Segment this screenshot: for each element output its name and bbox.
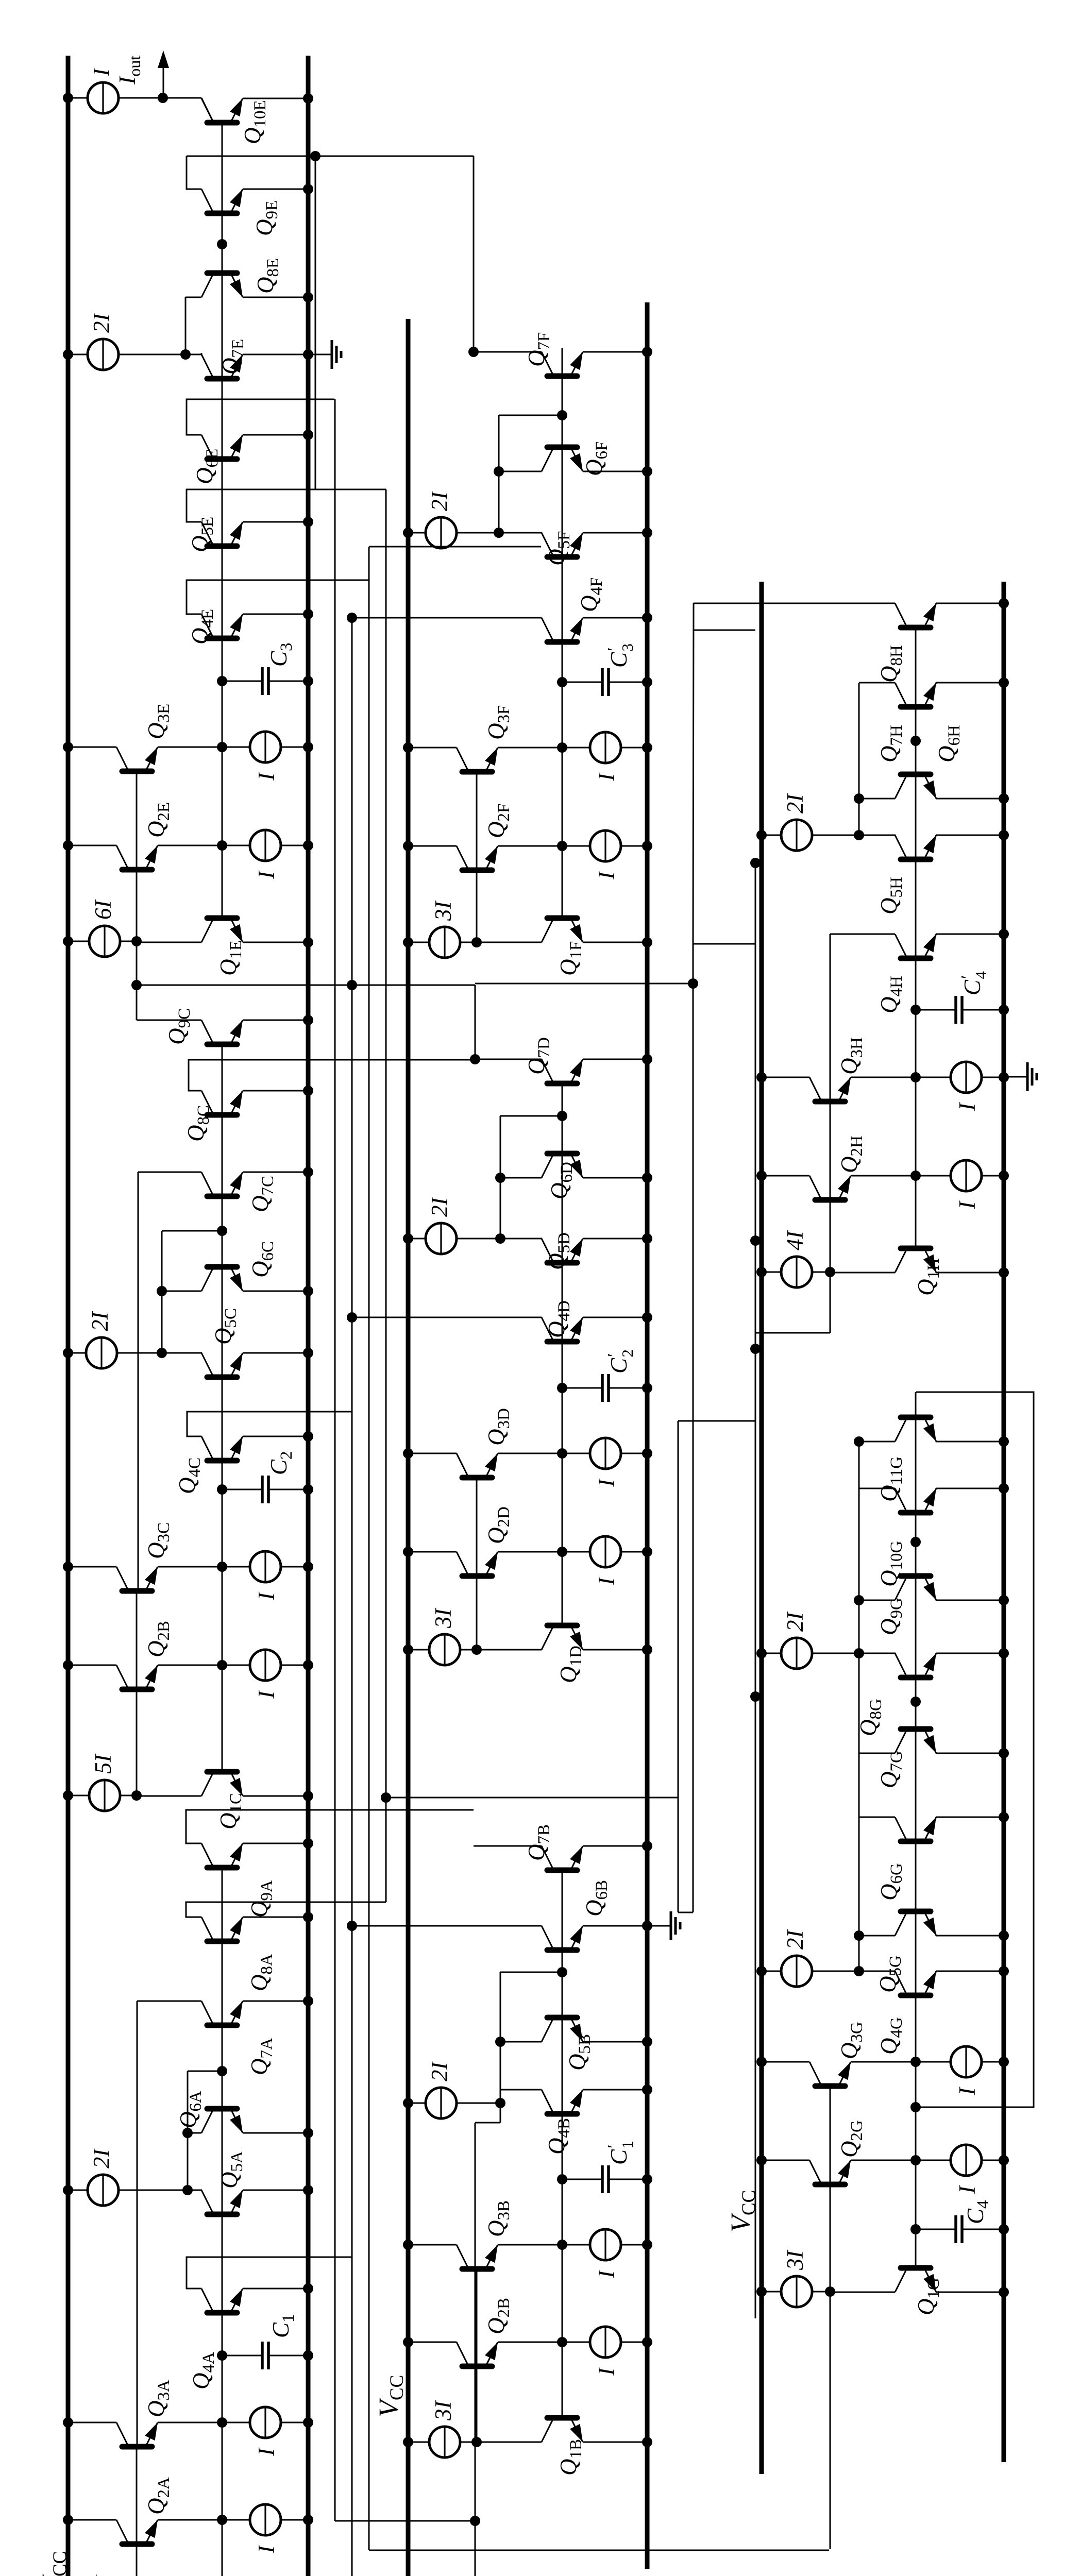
wire E bias node left [131, 941, 142, 1020]
current source I (Q3D emitter) [594, 1478, 619, 1487]
wire Q5H collector [859, 835, 896, 836]
wire Q4C collector hook [187, 1412, 352, 1436]
wire base row B [562, 1868, 563, 2342]
label Q2E [143, 802, 173, 838]
svg-text:5I: 5I [90, 1754, 116, 1774]
wire Q9C emitter [243, 1015, 313, 1025]
label Q3F [483, 705, 513, 740]
wire Q5B collector [495, 2037, 542, 2047]
label Q4E [187, 609, 217, 645]
transistor Q7D [542, 1059, 583, 1083]
svg-text:3I: 3I [782, 2250, 808, 2271]
svg-text:I: I [594, 2367, 619, 2376]
wire Q4F emitter [583, 613, 652, 623]
current source 2I (G2) [756, 1956, 864, 1987]
wire Q6G collector [859, 1817, 895, 1818]
capacitor C1 [217, 2342, 313, 2369]
label 2I (G2) [782, 1929, 808, 1950]
wire Q6H collector [854, 793, 895, 804]
wire Q5C emitter [243, 1348, 313, 1358]
label 2I (A) [89, 2148, 114, 2169]
transistor Q6E [201, 435, 243, 459]
net E bias drop x3448 [137, 980, 475, 990]
transistor Q9C [201, 1020, 243, 1044]
current source I (Q3E emitter) [254, 772, 279, 781]
label Q2G [836, 2120, 866, 2158]
label Q2H [836, 1136, 866, 1173]
label C4p [958, 971, 990, 995]
current source 3I (D) [403, 1634, 482, 1665]
wire Q11G collector [854, 1436, 895, 1447]
capacitor C3 [217, 667, 313, 695]
current source 2I (E) [63, 339, 191, 370]
transistor Q8C [201, 1091, 243, 1115]
wire Q6D emitter [583, 1173, 652, 1183]
transistor Q6F [542, 447, 583, 471]
transistor Q1E [137, 844, 313, 947]
label 3I (G) [782, 2250, 808, 2271]
wire Q7B emitter [583, 1841, 652, 1851]
transistor Q3C [63, 1551, 313, 1591]
current source I (Q3F emitter) [594, 772, 619, 782]
wire Q6F emitter [583, 466, 652, 477]
transistor Q7H [895, 683, 936, 707]
net y612 (Q9E to F) [310, 151, 320, 489]
wire Q8G emitter [936, 1648, 1009, 1658]
svg-text:I: I [954, 1102, 980, 1111]
label 5I [90, 1754, 116, 1774]
label Q7E [217, 339, 247, 375]
current source 3I (F) [403, 927, 482, 958]
svg-text:2I: 2I [782, 1612, 808, 1632]
svg-text:I: I [254, 870, 279, 879]
net y922 CD link [475, 985, 476, 1059]
transistor Q2B [403, 2327, 652, 2366]
node D core tie [500, 1111, 567, 1239]
current source 4I [756, 1257, 835, 1287]
label Iout [114, 56, 144, 85]
label C1 [268, 2314, 298, 2338]
wire Q4E emitter [243, 609, 313, 619]
label 2I (B) [427, 2061, 452, 2082]
wire Q5E emitter [243, 517, 313, 527]
wire Q5E collector hook [187, 489, 386, 522]
label Q4B [544, 2118, 573, 2155]
net y1316 leg left [678, 1912, 693, 1913]
current source I (Q3A emitter) [254, 2447, 279, 2456]
wire Q10G base dot [910, 1537, 921, 1547]
wire base row H [915, 625, 917, 1175]
transistor Q2A [63, 2504, 313, 2544]
transistor Q3A [63, 2407, 313, 2447]
current source 2I (H) [756, 820, 864, 851]
transistor Q1D [477, 1552, 652, 1655]
label Q6B [581, 1880, 611, 1917]
wire Q4H emitter [936, 929, 1009, 939]
wire Q7A collector [137, 2001, 201, 2002]
transistor Q4B [542, 2090, 583, 2114]
wire Q5A collector [188, 2190, 202, 2191]
wire mirror base line C [137, 1172, 138, 1795]
transistor Q7F [542, 352, 583, 376]
wire mirror base line F [476, 769, 478, 942]
current source 2I (B) [403, 2088, 505, 2119]
label Q6E [192, 449, 222, 484]
wire Q7F emitter [583, 347, 652, 357]
label C1p [604, 2141, 636, 2165]
label VCC band3 [725, 2190, 760, 2232]
wire Q6G emitter [936, 1812, 1009, 1822]
transistor Q4F [542, 618, 583, 642]
capacitor C4p [910, 996, 1009, 1024]
svg-text:3I: 3I [430, 901, 456, 922]
label 2I (D) [427, 1197, 452, 1217]
wire Q4A collector hook [187, 2257, 352, 2289]
transistor Q2F [403, 831, 652, 870]
current source I (Q3H emitter) [954, 1102, 980, 1111]
capacitor C3p [557, 668, 652, 696]
wire base row G [915, 1415, 917, 2160]
net y1345 [693, 944, 694, 1912]
label 6I (E) [90, 900, 116, 920]
transistor Q2B (band1) [63, 1650, 313, 1689]
wire Q7A emitter [243, 1996, 313, 2006]
net y1345 to Q8H [693, 603, 694, 944]
wire Q7D collector [470, 1054, 542, 1064]
wire Q6F collector [494, 466, 542, 477]
transistor Q1G [830, 2160, 1009, 2297]
label Q8C [183, 1105, 213, 1142]
wire Q8E base [217, 239, 227, 270]
wire mirror base line D [476, 1475, 478, 1650]
ground (band1) [308, 340, 341, 369]
wire Q6A collector [182, 2128, 201, 2138]
label Q10E [240, 100, 269, 144]
label 3I (B) [430, 2400, 456, 2421]
label C2 [266, 1451, 296, 1475]
label Q3E [143, 704, 173, 739]
wire Q8H collector [694, 603, 895, 604]
net leg x1871 [386, 1797, 678, 1799]
transistor Q7C [201, 1172, 243, 1196]
wire Q6E collector hook [187, 399, 334, 435]
label Q6G [876, 1863, 906, 1901]
net y919 EF [473, 156, 475, 354]
wire Q5G collector [854, 1930, 895, 1941]
net y649 left leg [335, 2520, 475, 2522]
label Q1E [215, 940, 245, 976]
transistor Q1H [830, 1175, 1009, 1278]
transistor Q6G [895, 1817, 936, 1841]
wire Q6A emitter [243, 2128, 313, 2138]
svg-text:4I: 4I [782, 1230, 808, 1251]
label C4 [963, 2200, 992, 2224]
transistor Q1C [137, 1665, 313, 1801]
VCC rail band1 [66, 56, 71, 2576]
net y1466 [750, 858, 761, 2318]
wire base row A [222, 1870, 223, 2519]
current source I (Q2B emitter) [594, 2367, 619, 2376]
wire Q8G base dot [910, 1697, 921, 1707]
node G collector line [858, 1441, 860, 1971]
current source I (Q3G emitter) [954, 2087, 980, 2096]
wire Q5A emitter [243, 2185, 313, 2195]
wire Q7G collector [859, 1753, 895, 1754]
transistor Q9A [201, 1843, 243, 1868]
label Q5G [875, 1955, 905, 1993]
svg-text:2I: 2I [782, 793, 808, 814]
svg-text:I: I [89, 67, 114, 77]
wire mirror base line A [137, 2001, 137, 2576]
wire Q8H emitter [936, 598, 1009, 608]
wire Q4G collector [859, 1971, 896, 1972]
wire Q6C emitter [243, 1286, 313, 1296]
label Q11G [876, 1456, 906, 1502]
wire Q5H emitter [936, 830, 1009, 840]
wire Q8C emitter [243, 1086, 313, 1096]
label Q4F [576, 578, 606, 612]
label Q1C [215, 1793, 245, 1829]
label Q2F [483, 804, 513, 838]
label Q3H [836, 1037, 866, 1075]
current source 2I (G1) [756, 1638, 864, 1669]
wire base row D [562, 1082, 563, 1552]
label Q7G [876, 1751, 906, 1788]
label 3I (F) [430, 901, 456, 922]
transistor Q6B [542, 1926, 583, 1950]
label Q6A [175, 2091, 205, 2128]
wire Q8C collector hook [189, 1060, 475, 1091]
svg-text:2I: 2I [89, 313, 114, 333]
svg-text:I: I [594, 871, 619, 880]
capacitor C1p [557, 2165, 652, 2193]
transistor Q4A [201, 2289, 243, 2313]
label Q1B [555, 2439, 585, 2476]
svg-text:6I: 6I [90, 900, 116, 920]
wire Q9C collector [137, 1020, 201, 1021]
wire Q7C emitter [243, 1167, 313, 1177]
svg-text:I: I [594, 1478, 619, 1487]
label Q1F [555, 941, 585, 976]
wire mirror base line H [830, 934, 831, 1272]
svg-text:2I: 2I [89, 2148, 114, 2169]
wire Q4D collector [347, 1312, 542, 1323]
transistor Q8A [201, 1917, 243, 1941]
wire Q4B emitter [583, 2084, 652, 2095]
current source 6I (E) [63, 926, 142, 957]
net y715 (Q4E tap) [368, 547, 370, 2550]
ground (band3) [1004, 1062, 1037, 1091]
transistor Q5F [542, 533, 583, 557]
VCC rail band2 [406, 319, 411, 2576]
transistor Q7E [201, 354, 243, 379]
label C3 [266, 642, 296, 667]
label Q9G [876, 1598, 906, 1635]
wire mirror base line B [476, 2266, 478, 2442]
label Q9C [164, 1008, 194, 1045]
label Q2B (band1) [143, 1621, 173, 1657]
label Q6C [247, 1241, 277, 1278]
label Q2D [483, 1506, 513, 1544]
label 2I (F) [427, 491, 452, 512]
current source I (output) [63, 82, 168, 113]
label Q5H [876, 877, 906, 914]
net y749 (Q5E tap) [381, 489, 391, 1902]
transistor Q4H [895, 934, 936, 958]
wire mirror base line E [136, 769, 138, 941]
label Q5F [544, 531, 573, 566]
current source I (Q2B (band1) emitter) [254, 1690, 279, 1699]
svg-text:I: I [254, 772, 279, 781]
label Q6D [546, 1162, 576, 1199]
svg-text:I: I [954, 2087, 980, 2096]
current source 5I [63, 1780, 142, 1811]
label Q2B [483, 2298, 513, 2334]
net y715 leg G [369, 2550, 829, 2551]
wire Q6B collector [347, 1921, 542, 1931]
svg-text:I: I [594, 1577, 619, 1586]
label VCC band1 [36, 2551, 71, 2576]
label Q3C [143, 1522, 173, 1559]
label C3p [604, 643, 636, 668]
net y749 leg Q8A [186, 1902, 386, 1903]
ground rail band1 [306, 56, 311, 2576]
current source I (Q3C emitter) [254, 1591, 279, 1601]
transistor Q3B [403, 2229, 652, 2269]
net y1316 leg right [678, 1420, 755, 1422]
wire mirror base line G [830, 2083, 831, 2549]
current source I (Q2E emitter) [254, 870, 279, 879]
capacitor C4 [910, 2215, 1009, 2243]
label Q5A [216, 2151, 246, 2189]
label 2I (E) [89, 313, 114, 333]
label 2I (C) [87, 1311, 113, 1332]
current source I (Q3B emitter) [594, 2269, 619, 2279]
wire Q7H collector [859, 682, 895, 684]
transistor Q5D [542, 1239, 583, 1263]
svg-text:2I: 2I [427, 1197, 452, 1217]
transistor Q2H [756, 1160, 1009, 1200]
wire Q6C collector [157, 1286, 201, 1296]
label Q7H [876, 725, 906, 762]
transistor Q10G [895, 1488, 936, 1513]
label Q5B [564, 2034, 594, 2071]
wire Q7H base junction [910, 736, 921, 746]
transistor Q1A [137, 2518, 313, 2576]
label Q1G [913, 2278, 943, 2315]
wire Q8G collector [859, 1653, 896, 1654]
wire Q7B collector [474, 1845, 542, 1847]
transistor Q4D [542, 1317, 583, 1342]
svg-text:2I: 2I [87, 1311, 113, 1332]
current source I (Q2H emitter) [954, 1200, 980, 1210]
net y1345 leg [693, 943, 755, 945]
current source I (Q2G emitter) [954, 2185, 980, 2194]
transistor Q5G [895, 1911, 936, 1936]
capacitor C2p [557, 1374, 652, 1402]
wire Q5C collector [162, 1352, 202, 1354]
label Q4D [544, 1300, 573, 1338]
svg-text:I: I [954, 2185, 980, 2194]
wire Q6B emitter [583, 1921, 652, 1931]
net y683 (Iin bias line) [351, 618, 353, 2576]
ground rail band2 [645, 302, 650, 2569]
transistor Q2E [63, 830, 313, 870]
transistor Q3G [756, 2046, 1009, 2086]
transistor Q3D [403, 1438, 652, 1478]
capacitor C2 [217, 1476, 313, 1503]
transistor Q7G [895, 1729, 936, 1753]
wire Q7E collector [185, 353, 201, 354]
current source 3I (G) [756, 2276, 835, 2307]
wire Q10E collector [163, 98, 212, 120]
wire Q9A collector hook [186, 1810, 474, 1843]
net y922 B [470, 2123, 500, 2576]
label Q7C [247, 1176, 277, 1212]
net x4137 leg [694, 630, 755, 631]
label Q4H [876, 976, 906, 1013]
VCC rail band3 [760, 582, 764, 2474]
wire Q6E emitter [243, 430, 313, 440]
label Q8E [252, 258, 282, 294]
wire base row F [562, 348, 563, 845]
transistor Q8G [895, 1653, 936, 1677]
wire Q10G collector [859, 1488, 895, 1489]
svg-text:2I: 2I [427, 491, 452, 512]
current source 2I (F) [403, 517, 504, 548]
wire Q10E emitter [243, 93, 313, 104]
wire Q9G collector [854, 1595, 895, 1605]
wire Q7C collector [138, 1172, 201, 1173]
label C2p [604, 1349, 636, 1374]
svg-text:2I: 2I [782, 1929, 808, 1950]
wire Q6H emitter [936, 793, 1009, 804]
transistor Q7B [542, 1846, 583, 1870]
wire Q9A emitter [243, 1838, 313, 1849]
svg-text:I: I [254, 1591, 279, 1601]
label VCC band2 [373, 2375, 408, 2417]
label Q8G [855, 1699, 885, 1736]
label Q6H [934, 725, 964, 762]
wire Q5D collector [500, 1238, 542, 1240]
wire Q7G emitter [936, 1748, 1009, 1758]
transistor Q9G [895, 1576, 936, 1600]
transistor Q2D [403, 1536, 652, 1576]
wire Q7D emitter [583, 1054, 652, 1064]
wire Q10G emitter [936, 1483, 1009, 1494]
label 6I (A) [91, 2574, 116, 2576]
label 2I (G1) [782, 1612, 808, 1632]
transistor Q4G [895, 1971, 936, 1995]
wire Q5D emitter [583, 1233, 652, 1244]
label Q3G [836, 2022, 866, 2059]
transistor Q4C [201, 1436, 243, 1461]
net Q9E leg [187, 156, 474, 157]
wire Q4A emitter [243, 2283, 313, 2294]
svg-text:I: I [254, 2545, 279, 2554]
label Q6F [581, 442, 611, 476]
label Q5D [544, 1232, 573, 1270]
label Q7F [524, 332, 553, 367]
transistor Q3F [403, 732, 652, 772]
ground rail band3 [1002, 582, 1006, 2462]
transistor Q10E [201, 98, 243, 123]
wire Q8E collector [185, 297, 201, 298]
transistor Q3E [63, 732, 313, 771]
transistor Q1B [477, 2344, 652, 2447]
transistor Q5E [201, 522, 243, 546]
wire Q4F collector [347, 613, 542, 623]
